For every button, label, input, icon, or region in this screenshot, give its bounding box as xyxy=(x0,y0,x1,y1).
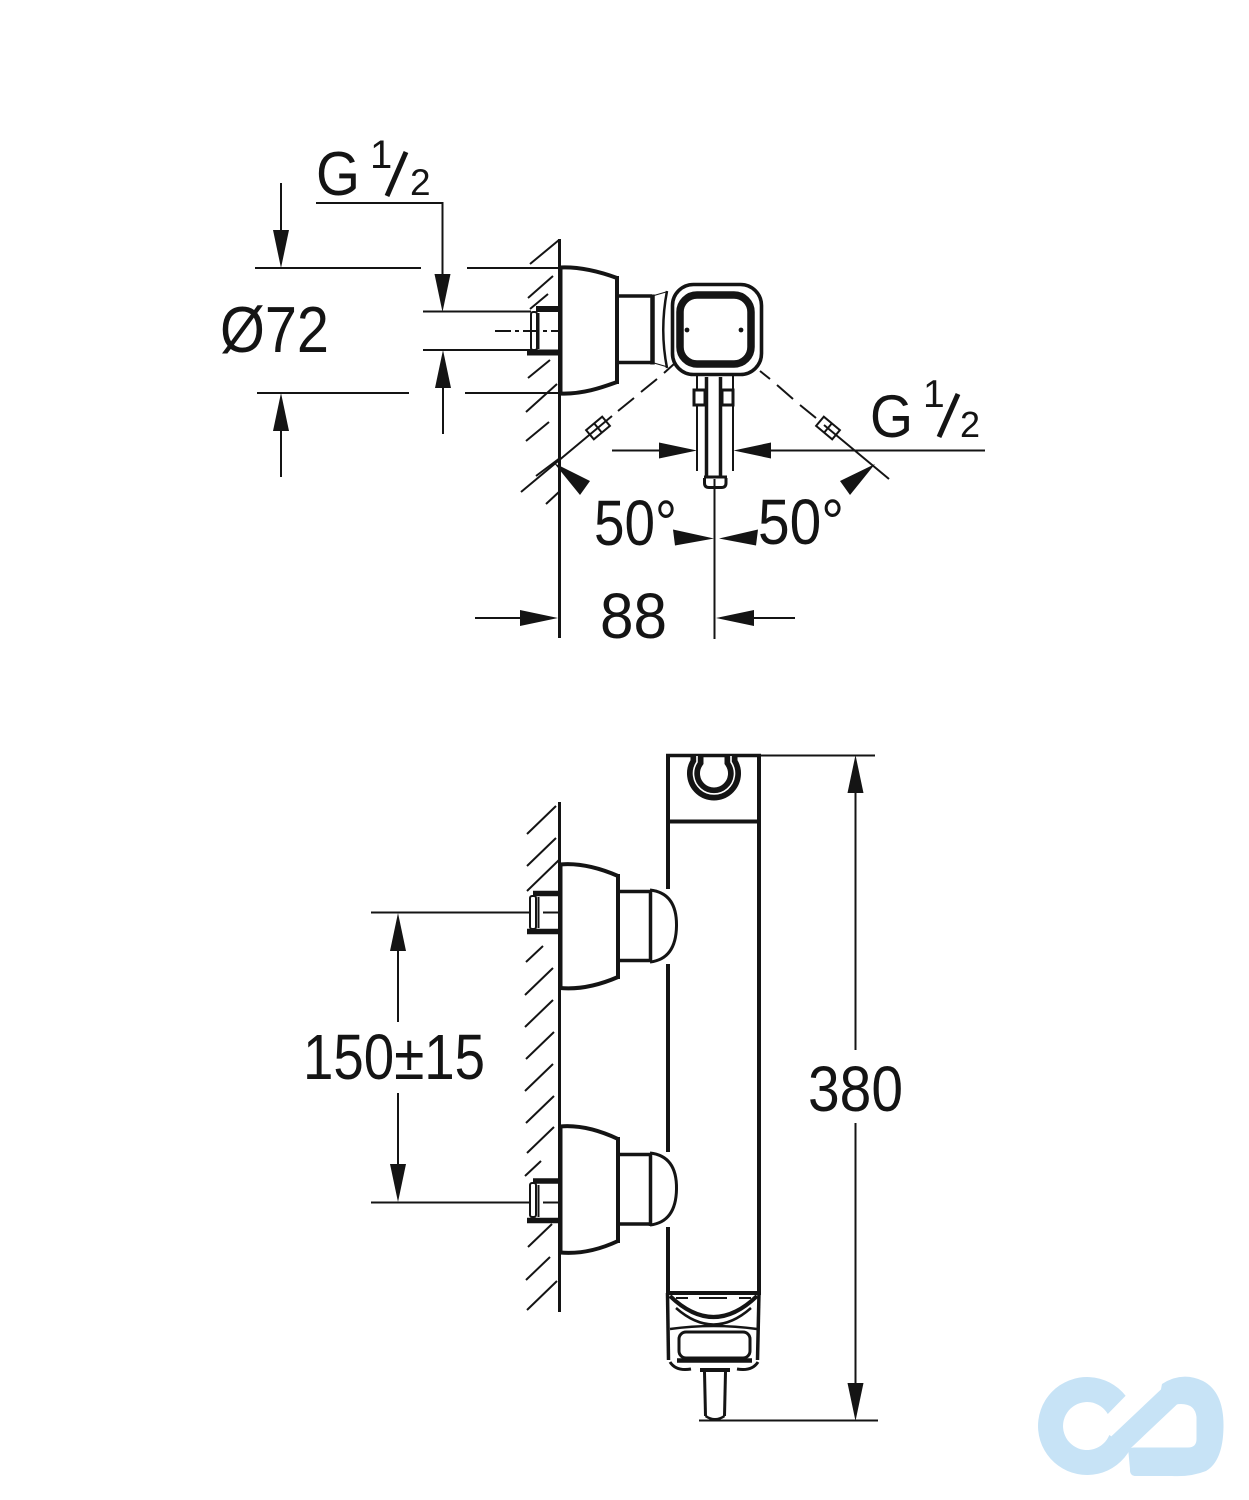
cap side ears xyxy=(670,1362,691,1370)
upper supply: escutcheon xyxy=(559,864,563,988)
dimension O72 arrows xyxy=(280,183,282,232)
phantom handle-end rectangle right xyxy=(816,417,840,440)
bottom outlet cap xyxy=(668,1293,669,1360)
svg-text:88: 88 xyxy=(600,580,667,652)
svg-text:2: 2 xyxy=(410,162,431,203)
connector pipe flange-to-knob (top view) xyxy=(617,294,652,298)
knob screw dots xyxy=(685,328,690,333)
shower hose holder ring xyxy=(694,756,735,794)
outlet spout xyxy=(700,1368,730,1372)
faucet body (bottom view) xyxy=(666,755,670,889)
dimension G1/2 top-left leader xyxy=(316,203,443,276)
lower supply: threaded nipple xyxy=(533,1178,559,1184)
logo crossing band xyxy=(1099,1379,1188,1463)
knob skirt back arc xyxy=(663,291,667,368)
svg-text:380: 380 xyxy=(808,1053,903,1125)
lower supply: escutcheon xyxy=(559,1126,563,1253)
svg-text:150±15: 150±15 xyxy=(303,1021,485,1093)
knob outer squircle (top view) xyxy=(673,285,762,375)
wall line (bottom view) xyxy=(558,802,561,1312)
wall hatching (bottom view) xyxy=(525,806,559,1310)
vertical centerline below handle xyxy=(714,489,716,639)
logo left C ring xyxy=(1038,1377,1130,1475)
dimension G1/2 (handle) line xyxy=(612,450,661,452)
dimension 380 xyxy=(761,755,875,757)
50 deg angle arrows at centerline vertex xyxy=(673,530,714,546)
wall line (top view) xyxy=(558,239,561,638)
lower supply: pipe to body xyxy=(618,1153,650,1157)
50 deg angle arrows at phantom lines xyxy=(554,463,590,495)
svg-text:1: 1 xyxy=(923,373,945,416)
phantom line right (50 deg position) xyxy=(824,425,889,479)
label G1/2 top-left xyxy=(316,133,431,209)
knob inner thick ring xyxy=(680,295,751,364)
pipe nut at wall (top view) xyxy=(536,306,559,312)
handle / outlet stem (top view) xyxy=(696,375,698,471)
svg-text:1: 1 xyxy=(370,133,392,177)
wall hatching (top view) xyxy=(526,240,560,504)
svg-text:G: G xyxy=(316,140,360,209)
svg-text:G: G xyxy=(870,383,913,450)
phantom handle-end rectangle left xyxy=(586,417,610,440)
svg-text:Ø72: Ø72 xyxy=(220,293,329,366)
upper supply: pipe to body xyxy=(618,890,650,894)
label G1/2 right xyxy=(870,373,980,450)
stem side tabs xyxy=(694,390,705,405)
upper supply: threaded nipple xyxy=(533,891,559,897)
dimension 150+-15 xyxy=(371,912,530,914)
svg-text:2: 2 xyxy=(960,404,980,445)
supply pipe through wall (top view) xyxy=(423,311,531,313)
escutcheon flange (top view) xyxy=(560,267,617,278)
aerator face xyxy=(679,1332,750,1358)
phantom line left (50 deg position) xyxy=(521,416,612,492)
dimension O72 extension lines xyxy=(255,267,421,269)
svg-text:50°: 50° xyxy=(758,486,844,558)
pipe centerline dash-dot xyxy=(495,330,560,332)
stem bottom tip xyxy=(704,476,727,479)
svg-text:50°: 50° xyxy=(594,487,677,559)
dimension 88 xyxy=(475,617,522,619)
logo right D shape xyxy=(1128,1377,1223,1476)
